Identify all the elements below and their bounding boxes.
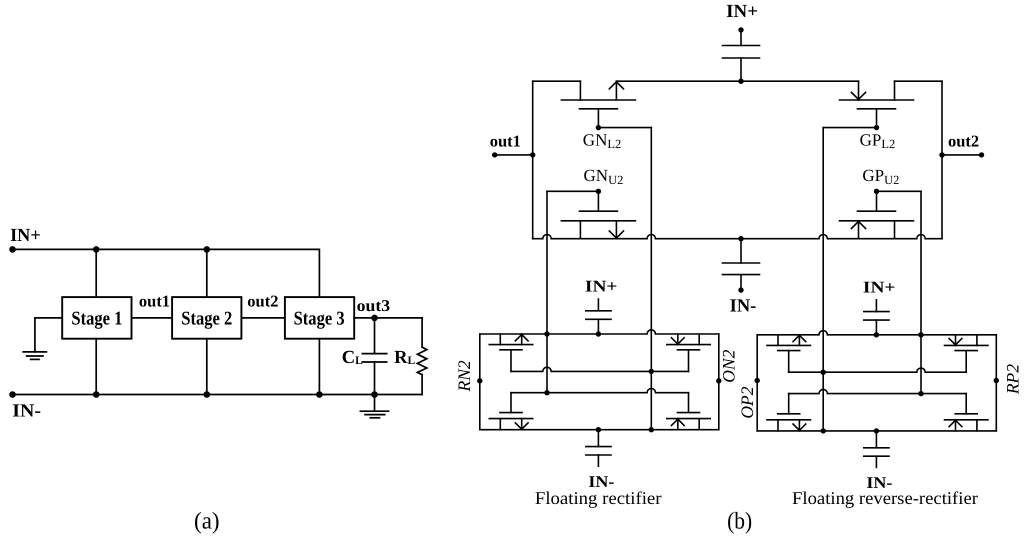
svg-text:CL: CL — [342, 348, 363, 368]
svg-text:IN+: IN+ — [726, 2, 758, 22]
svg-text:out1: out1 — [490, 131, 521, 150]
svg-text:(b): (b) — [727, 508, 752, 534]
svg-text:IN+: IN+ — [863, 278, 896, 297]
svg-text:Stage 3: Stage 3 — [294, 309, 345, 330]
svg-text:OP2: OP2 — [737, 386, 757, 418]
svg-text:out3: out3 — [357, 296, 391, 315]
svg-text:RL: RL — [394, 348, 415, 368]
svg-text:Stage 2: Stage 2 — [181, 309, 232, 330]
svg-text:out2: out2 — [247, 292, 278, 311]
svg-text:out1: out1 — [139, 292, 170, 311]
svg-text:IN-: IN- — [12, 401, 41, 421]
svg-text:IN-: IN- — [730, 297, 757, 317]
svg-text:(a): (a) — [194, 508, 220, 534]
svg-text:Stage 1: Stage 1 — [71, 309, 122, 330]
svg-text:RP2: RP2 — [1002, 364, 1022, 395]
svg-text:Floating rectifier: Floating rectifier — [535, 488, 662, 508]
svg-text:IN+: IN+ — [585, 277, 618, 296]
svg-text:RN2: RN2 — [454, 360, 474, 392]
svg-text:GNU2: GNU2 — [584, 166, 624, 187]
svg-text:GPU2: GPU2 — [862, 166, 899, 187]
svg-text:ON2: ON2 — [719, 349, 739, 382]
svg-text:GNL2: GNL2 — [583, 130, 621, 151]
svg-text:GPL2: GPL2 — [860, 130, 896, 151]
svg-text:IN+: IN+ — [10, 226, 41, 246]
svg-text:out2: out2 — [948, 131, 979, 150]
svg-text:Floating reverse-rectifier: Floating reverse-rectifier — [792, 488, 978, 508]
